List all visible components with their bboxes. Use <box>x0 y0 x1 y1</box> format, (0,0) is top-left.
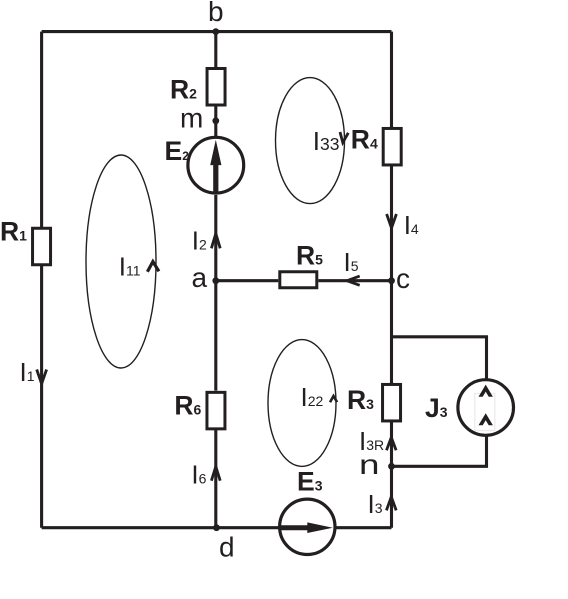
svg-text:a: a <box>192 262 208 293</box>
wire node c to R3 <box>390 281 393 384</box>
source E2 arrow <box>210 140 221 193</box>
node n <box>388 463 395 470</box>
current arrow I3R (up) <box>387 437 397 450</box>
loop ellipse I33 <box>276 78 345 204</box>
node m <box>212 117 219 124</box>
source E3 circle <box>280 499 335 554</box>
svg-text:d: d <box>219 531 235 562</box>
wire node a to R6 <box>214 281 217 391</box>
node c <box>388 277 395 284</box>
wire top b rail <box>42 30 392 33</box>
current arrow I6 (up) <box>211 467 220 481</box>
svg-text:b: b <box>208 0 224 27</box>
current arrow I3 (up) <box>386 497 396 511</box>
wire R3 to node n to bottom <box>390 422 393 528</box>
wire node a to R5 <box>216 279 278 282</box>
loop ellipse I22 <box>268 340 336 467</box>
current arrow I2 (up) <box>211 234 220 249</box>
resistor R3 <box>383 384 401 421</box>
current arrow I5 (left) <box>347 276 360 285</box>
node b <box>212 28 219 35</box>
J3 inner band <box>475 394 495 431</box>
node a <box>212 277 219 284</box>
svg-text:c: c <box>396 263 410 294</box>
resistor R1 <box>33 228 51 265</box>
loop I11 arrow <box>147 262 159 272</box>
resistor R5 <box>280 272 317 288</box>
node d <box>213 524 220 531</box>
wire bottom rail <box>42 526 392 529</box>
wire node b to R2 <box>214 32 217 67</box>
svg-text:m: m <box>180 103 203 134</box>
resistor R2 <box>207 69 225 106</box>
wire left rail <box>40 32 43 528</box>
loop I22 arrow <box>330 396 337 402</box>
current source J3 circle <box>458 380 514 436</box>
wire R2 to E2 <box>214 107 217 138</box>
wire right rail top segment <box>390 32 393 128</box>
resistor R6 <box>207 392 225 429</box>
J3 arrow chevron bottom <box>479 413 493 425</box>
wire J3 bottom to node n <box>392 436 487 466</box>
resistor R4 <box>383 128 401 165</box>
wire R4 to node c <box>390 166 393 281</box>
wire R6 to node d <box>214 429 217 527</box>
current arrow I4 (down) <box>387 214 397 228</box>
source E2 circle <box>188 137 244 193</box>
wire E2 to node a <box>214 195 217 281</box>
wire branch c to J3 top <box>392 337 487 379</box>
loop I33 arrow <box>340 132 348 143</box>
source E3 arrow <box>280 522 333 533</box>
J3 arrow chevron top <box>479 385 493 397</box>
wire R5 to node c <box>318 279 391 282</box>
current arrow I1 (down) <box>37 370 47 384</box>
loop ellipse I11 <box>86 155 156 368</box>
